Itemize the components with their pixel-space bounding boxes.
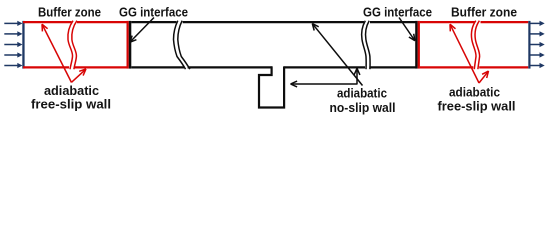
inflow arrow 2 bbox=[4, 33, 18, 35]
channel break symbol 1 (black) bbox=[174, 21, 190, 69]
inflow arrow 3 bbox=[4, 44, 18, 46]
black arrow to cavity wall bbox=[292, 83, 358, 85]
svg-text:adiabatic: adiabatic bbox=[337, 86, 387, 101]
right break symbol (red) bbox=[471, 21, 479, 69]
outflow arrow 4 bbox=[531, 54, 541, 56]
left buffer zone right edge (red) bbox=[127, 21, 129, 69]
right GG interface line (black) bbox=[415, 21, 418, 69]
black arrow to channel bottom wall bbox=[356, 69, 358, 84]
channel top wall (black no-slip) bbox=[131, 21, 415, 23]
black arrow to channel top wall bbox=[313, 24, 363, 85]
red arrow to right top wall bbox=[450, 25, 479, 83]
left buffer zone top wall (red free-slip) bbox=[23, 21, 128, 23]
left buffer zone bottom wall (red free-slip) bbox=[23, 66, 128, 68]
svg-text:adiabatic: adiabatic bbox=[449, 85, 500, 100]
channel bottom wall right segment bbox=[284, 66, 415, 68]
right buffer zone top wall (red free-slip) bbox=[420, 21, 528, 23]
channel break symbol 2 (black) bbox=[362, 21, 370, 69]
svg-text:no-slip wall: no-slip wall bbox=[330, 100, 396, 115]
svg-text:GG interface: GG interface bbox=[363, 5, 432, 20]
inflow arrow 1 bbox=[4, 22, 18, 24]
black arrow to left GG interface bbox=[130, 18, 154, 42]
red arrow to right bottom wall bbox=[479, 72, 488, 83]
channel bottom wall left segment bbox=[131, 66, 272, 68]
outflow arrow 5 bbox=[531, 65, 541, 67]
svg-text:free-slip wall: free-slip wall bbox=[438, 99, 516, 114]
left GG interface line (black) bbox=[129, 21, 132, 69]
left inlet wall (blue) bbox=[22, 21, 24, 69]
svg-text:Buffer zone: Buffer zone bbox=[451, 5, 517, 20]
inflow arrow 5 bbox=[4, 65, 18, 67]
right outlet wall (blue) bbox=[528, 21, 530, 69]
outflow arrow 2 bbox=[531, 33, 541, 35]
right buffer zone bottom wall (red free-slip) bbox=[420, 66, 528, 68]
outflow arrow 3 bbox=[531, 44, 541, 46]
red arrow to left top wall bbox=[43, 25, 72, 82]
left break symbol (red) bbox=[68, 21, 77, 69]
svg-text:Buffer zone: Buffer zone bbox=[38, 5, 101, 20]
outflow arrow 1 bbox=[531, 22, 541, 24]
inflow arrow 4 bbox=[4, 54, 18, 56]
red arrow to left bottom wall bbox=[72, 70, 86, 83]
right buffer zone left edge (red) bbox=[418, 21, 420, 69]
black arrow to right GG interface bbox=[399, 18, 414, 41]
cavity in bottom wall bbox=[259, 66, 284, 107]
svg-text:free-slip wall: free-slip wall bbox=[31, 97, 111, 112]
